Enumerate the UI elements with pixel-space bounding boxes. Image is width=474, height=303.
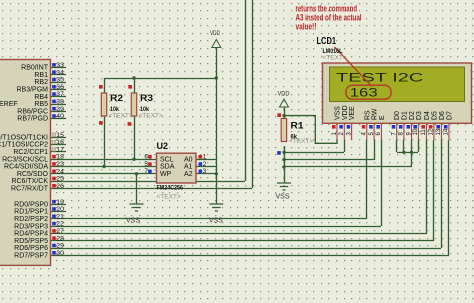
- svg-text:RB6/PGC: RB6/PGC: [17, 108, 48, 115]
- svg-text:3: 3: [203, 168, 207, 175]
- svg-text:10: 10: [413, 128, 419, 135]
- svg-text:FM24C256: FM24C256: [157, 185, 184, 192]
- svg-text:value!!: value!!: [296, 22, 317, 32]
- svg-text:28: 28: [56, 235, 64, 242]
- svg-text:6: 6: [144, 154, 148, 161]
- svg-text:RC5/SDO: RC5/SDO: [17, 171, 49, 178]
- svg-text:40: 40: [56, 113, 64, 120]
- svg-text:19: 19: [56, 199, 64, 206]
- svg-text:16: 16: [56, 139, 64, 146]
- svg-text:VDD: VDD: [278, 90, 290, 97]
- svg-text:D0: D0: [394, 111, 401, 120]
- svg-text:D7: D7: [446, 111, 453, 120]
- svg-text:27: 27: [56, 228, 64, 235]
- svg-text:RB5: RB5: [34, 101, 48, 108]
- svg-text:14: 14: [444, 128, 450, 135]
- svg-text:A0: A0: [184, 156, 193, 163]
- svg-text:17: 17: [56, 146, 64, 153]
- svg-text:20: 20: [56, 206, 64, 213]
- svg-text:<TEXT>: <TEXT>: [139, 113, 163, 120]
- svg-text:21: 21: [56, 213, 64, 220]
- svg-text:36: 36: [56, 84, 64, 91]
- svg-text:RD6/PSP6: RD6/PSP6: [14, 245, 48, 252]
- svg-text:RD7/PSP7: RD7/PSP7: [14, 253, 48, 260]
- svg-text:RS: RS: [364, 110, 371, 120]
- svg-text:WP: WP: [160, 171, 172, 178]
- svg-text:RD1/PSP1: RD1/PSP1: [14, 209, 48, 216]
- svg-text:<TEXT>: <TEXT>: [323, 55, 347, 62]
- svg-text:TEST I2C: TEST I2C: [336, 71, 423, 85]
- svg-text:D4: D4: [424, 111, 431, 120]
- svg-text:E: E: [379, 115, 386, 120]
- svg-text:VSS: VSS: [209, 218, 223, 225]
- svg-text:7: 7: [144, 168, 148, 175]
- svg-text:RC2/CCP1: RC2/CCP1: [13, 149, 48, 156]
- svg-text:22: 22: [56, 221, 64, 228]
- svg-text:RC7/RX/DT: RC7/RX/DT: [11, 186, 49, 193]
- svg-text:A1: A1: [184, 164, 193, 171]
- svg-text:EREF: EREF: [0, 101, 18, 108]
- svg-text:A2: A2: [184, 171, 193, 178]
- svg-text:39: 39: [56, 106, 64, 113]
- svg-text:LCD1: LCD1: [317, 36, 337, 47]
- svg-text:37: 37: [56, 91, 64, 98]
- svg-text:18: 18: [56, 154, 64, 161]
- svg-text:38: 38: [56, 99, 64, 106]
- svg-text:SCL: SCL: [160, 156, 174, 163]
- svg-text:D6: D6: [439, 111, 446, 120]
- svg-text:VEE: VEE: [349, 106, 356, 120]
- svg-text:RC4/SDI/SDA: RC4/SDI/SDA: [4, 164, 48, 171]
- svg-text:U2: U2: [157, 141, 169, 151]
- svg-text:RB1: RB1: [34, 72, 48, 79]
- svg-text:RB7/PGD: RB7/PGD: [17, 116, 48, 123]
- svg-text:35: 35: [56, 77, 64, 84]
- svg-text:24: 24: [56, 168, 64, 175]
- svg-text:5: 5: [144, 161, 148, 168]
- svg-text:34: 34: [56, 69, 64, 76]
- svg-text:163: 163: [350, 85, 378, 99]
- svg-text:RB3/PGM: RB3/PGM: [16, 87, 48, 94]
- svg-text:RC6/TX/CK: RC6/TX/CK: [11, 178, 48, 185]
- svg-text:D5: D5: [431, 111, 438, 120]
- svg-text:25: 25: [56, 176, 64, 183]
- svg-text:RB0/INT: RB0/INT: [21, 65, 49, 72]
- svg-text:11: 11: [421, 129, 427, 136]
- svg-text:RD4/PSP4: RD4/PSP4: [14, 231, 48, 238]
- svg-text:12: 12: [429, 128, 435, 135]
- svg-text:VSS: VSS: [276, 194, 290, 201]
- svg-text:R2: R2: [110, 93, 123, 104]
- svg-text:30: 30: [56, 250, 64, 257]
- svg-text:RD3/PSP3: RD3/PSP3: [14, 223, 48, 230]
- svg-text:26: 26: [56, 183, 64, 190]
- svg-text:RC3/SCK/SCL: RC3/SCK/SCL: [2, 156, 48, 163]
- svg-text:13: 13: [436, 128, 442, 135]
- svg-text:R3: R3: [140, 93, 153, 104]
- svg-text:VSS: VSS: [126, 218, 140, 225]
- svg-text:23: 23: [56, 161, 64, 168]
- svg-text:15: 15: [56, 132, 64, 139]
- svg-text:RC1/T1OSI/CCP2: RC1/T1OSI/CCP2: [0, 142, 48, 149]
- svg-text:RD0/PSP0: RD0/PSP0: [14, 201, 48, 208]
- svg-text:1: 1: [203, 154, 207, 161]
- svg-text:VSS: VSS: [335, 106, 342, 120]
- svg-text:33: 33: [56, 62, 64, 69]
- svg-text:R1: R1: [291, 121, 305, 132]
- svg-text:RD2/PSP2: RD2/PSP2: [14, 216, 48, 223]
- svg-text:RB2: RB2: [34, 79, 48, 86]
- svg-text:RC0/T1OSO/T1CKI: RC0/T1OSO/T1CKI: [0, 134, 48, 141]
- svg-text:RW: RW: [372, 108, 379, 120]
- svg-text:VDD: VDD: [342, 105, 349, 120]
- svg-text:<TEXT>: <TEXT>: [289, 138, 313, 145]
- svg-text:2: 2: [203, 161, 207, 168]
- svg-text:<TEXT>: <TEXT>: [109, 113, 133, 120]
- svg-text:D1: D1: [401, 111, 408, 120]
- svg-text:RD5/PSP5: RD5/PSP5: [14, 238, 48, 245]
- svg-text:RB4: RB4: [34, 94, 48, 101]
- svg-text:SDA: SDA: [160, 164, 175, 171]
- svg-text:29: 29: [56, 243, 64, 250]
- svg-text:<TEXT>: <TEXT>: [157, 194, 181, 201]
- svg-text:VDD: VDD: [210, 30, 220, 37]
- svg-text:D3: D3: [416, 111, 423, 120]
